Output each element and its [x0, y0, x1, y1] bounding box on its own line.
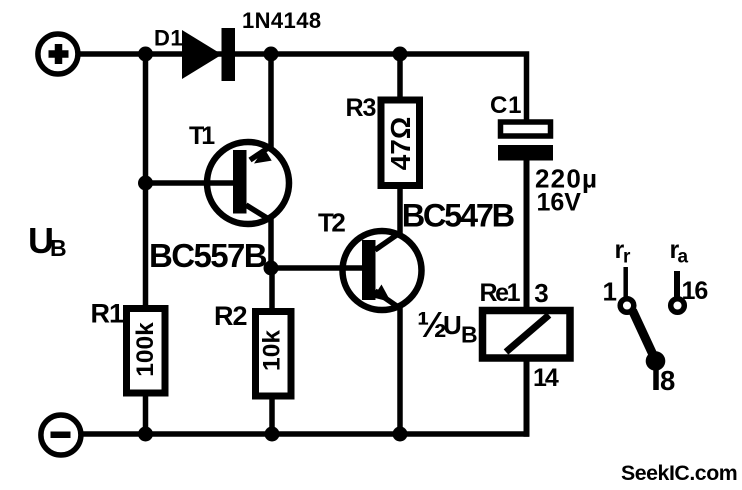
capacitor C1 (electrolytic)	[498, 122, 553, 161]
svg-text:T1: T1	[189, 122, 215, 150]
wire T1 collector down to node E	[268, 215, 274, 268]
label ra	[670, 236, 689, 268]
svg-text:B: B	[50, 235, 67, 261]
svg-text:U: U	[443, 310, 462, 340]
label rr	[615, 236, 632, 268]
svg-text:T2: T2	[318, 208, 345, 238]
svg-text:47Ω: 47Ω	[385, 117, 416, 171]
svg-text:1: 1	[603, 277, 617, 307]
wire node C down through R3 to T2 collector	[397, 54, 403, 235]
transistor T1 (BC557B, PNP)	[206, 142, 289, 224]
svg-text:R3: R3	[346, 94, 376, 122]
relay contact rr (switch)	[620, 267, 665, 390]
svg-text:16: 16	[682, 277, 708, 305]
wire node B down to T1 emitter	[268, 54, 274, 150]
transistor T2 (BC547B, NPN)	[341, 231, 422, 310]
svg-text:Re1: Re1	[480, 279, 521, 307]
wire left column from node A down to R1 top	[143, 54, 149, 310]
wire bottom rail from - terminal to bottom-right corner	[82, 431, 529, 437]
junction bottom rail / T2 emitter	[393, 427, 408, 442]
junction bottom rail / R1	[138, 427, 153, 442]
svg-text:BC557B: BC557B	[149, 237, 267, 274]
svg-text:R2: R2	[214, 301, 247, 331]
terminal - negative supply	[41, 415, 81, 455]
svg-text:10k: 10k	[259, 330, 286, 371]
node C junction (top rail / R3)	[393, 47, 408, 62]
terminal + positive supply	[38, 34, 78, 74]
svg-text:14: 14	[533, 364, 559, 392]
svg-text:C1: C1	[490, 92, 522, 119]
resistor R1	[127, 309, 166, 394]
svg-text:r: r	[623, 247, 631, 268]
diode D1	[182, 28, 235, 81]
svg-text:D1: D1	[154, 26, 183, 51]
svg-text:a: a	[678, 247, 689, 268]
svg-text:B: B	[461, 322, 478, 348]
wire T2 emitter down to bottom rail	[397, 305, 403, 434]
svg-text:16V: 16V	[537, 189, 582, 217]
wire node E down through R2 to bottom rail	[269, 268, 275, 434]
label UB (supply voltage)	[28, 220, 67, 261]
svg-text:SeekIC.com: SeekIC.com	[621, 461, 737, 485]
svg-text:R1: R1	[91, 299, 124, 329]
node A junction (top rail / left column)	[138, 47, 153, 62]
relay Re1 coil	[483, 311, 571, 359]
wire relay coil down to bottom-right corner	[524, 356, 530, 437]
wire T1 base from node D to T1	[146, 180, 239, 186]
label 1/2 UB	[417, 304, 478, 348]
resistor R2	[256, 312, 292, 397]
svg-text:1N4148: 1N4148	[242, 8, 321, 33]
wire C1 negative plate down to relay coil	[524, 158, 530, 310]
svg-text:BC547B: BC547B	[402, 198, 514, 234]
relay contact ra (switch)	[671, 271, 685, 312]
wire R1 bottom to bottom rail	[143, 393, 149, 434]
svg-text:3: 3	[534, 278, 548, 308]
svg-text:100k: 100k	[132, 322, 159, 377]
wire top rail from + terminal to top-right corner down to C1	[79, 54, 527, 124]
node E junction (T1 collector / T2 base / R2)	[264, 261, 279, 276]
wire T2 base from node E to T2	[271, 265, 366, 271]
resistor R3	[381, 100, 420, 186]
node D junction (left column / T1 base)	[138, 176, 153, 191]
svg-text:8: 8	[660, 365, 675, 396]
node B junction (diode cathode / T1 emitter)	[264, 47, 279, 62]
junction bottom rail / R2	[265, 427, 280, 442]
